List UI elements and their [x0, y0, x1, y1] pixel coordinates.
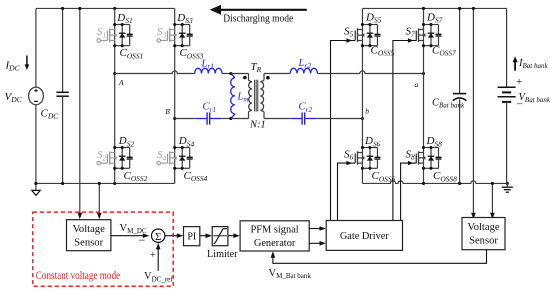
transistor S6 (MOSFET): [355, 148, 364, 169]
label V_DC_ref: [144, 271, 173, 283]
junction dots: [173, 146, 184, 170]
label T_R: [251, 61, 262, 74]
wire leg2 mid (node B): [174, 46, 176, 148]
diode D_S2: [119, 148, 126, 169]
wire (cell bottom bracket): [362, 167, 377, 169]
wire (cell top bracket): [362, 147, 377, 149]
wire V- sense line (left): [97, 183, 102, 219]
junction dots: [422, 23, 433, 47]
wire primary bottom lead: [231, 110, 252, 118]
svg-text:Voltage: Voltage: [73, 224, 105, 235]
label S6: [344, 148, 354, 161]
block Voltage Sensor (right): [462, 218, 505, 250]
capacitor C_OSS7: [436, 25, 442, 46]
wire V_DC_ref into summer: [156, 243, 161, 271]
label S2: [97, 149, 107, 162]
wire node B to C_r1: [175, 118, 196, 120]
label C_OSS4: [184, 170, 208, 183]
wire (cell bottom bracket): [424, 45, 439, 47]
wire (cell top bracket): [424, 24, 439, 26]
label C_OSS6: [372, 170, 396, 183]
block Gate Driver: [326, 221, 402, 251]
label C_OSS3: [180, 47, 204, 60]
wire V_DC branch upper: [35, 8, 37, 87]
junction dots: [113, 146, 124, 170]
label C_OSS8: [433, 170, 457, 183]
junction dot S8 leg bottom: [422, 182, 425, 185]
label C_OSS2: [124, 170, 148, 183]
svg-text:Generator: Generator: [254, 238, 296, 249]
label V_Bat bank: [519, 92, 550, 104]
label D_S2: [118, 135, 135, 148]
label S4: [157, 149, 167, 162]
node b: [361, 107, 369, 121]
capacitor C_OSS2: [127, 148, 133, 169]
label − (battery): [517, 98, 523, 110]
capacitor C_OSS5: [374, 25, 380, 46]
wire leg3 bottom: [361, 168, 363, 183]
label I_Bat bank: [518, 58, 548, 70]
transistor S3 (MOSFET): [157, 25, 177, 46]
wire top rail (right bridge): [362, 7, 506, 9]
diode D_S4: [179, 148, 186, 169]
label D_S7: [426, 12, 443, 25]
svg-text:Discharging mode: Discharging mode: [223, 13, 293, 25]
label V_M_Bat bank: [269, 268, 312, 280]
label C_r2: [299, 102, 313, 114]
wire (cell top bracket): [175, 24, 190, 26]
wire leg4 bottom: [423, 168, 425, 183]
wire (cell top bracket): [424, 147, 439, 149]
label Constant voltage mode: [36, 270, 120, 282]
wire PFM to gate driver (2): [309, 241, 326, 246]
junction dot S7 leg top: [422, 7, 425, 10]
label − (summer): [139, 233, 146, 247]
diode D_S3: [179, 25, 186, 46]
wire summer to PI: [165, 233, 183, 238]
svg-text:PI: PI: [187, 232, 196, 243]
wire leg1 top: [114, 8, 116, 24]
transistor S1 (MOSFET): [97, 25, 117, 46]
transistor S4 (MOSFET): [157, 148, 177, 169]
junction dots: [361, 146, 372, 170]
wire gate drive S7: [393, 38, 417, 220]
svg-text:Voltage: Voltage: [467, 222, 499, 233]
inductor L_r2: [290, 68, 317, 73]
svg-text:Gate Driver: Gate Driver: [340, 231, 389, 242]
wire leg4 mid (node a): [423, 46, 425, 148]
battery V_Bat bank: [498, 8, 516, 183]
wire secondary bottom lead: [260, 110, 290, 118]
wire PFM to gate driver (1): [309, 226, 326, 231]
wire (cell bottom bracket): [115, 45, 130, 47]
capacitor C_Bat bank: [453, 8, 467, 183]
label L_r1: [201, 58, 215, 70]
junction dots battery bus: [458, 7, 509, 185]
wire V_DC branch lower: [35, 105, 37, 184]
wire sensor to summer: [111, 233, 149, 238]
capacitor C_OSS3: [187, 25, 193, 46]
svg-text:a: a: [415, 80, 419, 89]
wire gate drive S5: [331, 38, 356, 220]
label D_S3: [176, 12, 193, 25]
label D_S4: [178, 135, 195, 148]
label D_S5: [365, 12, 382, 25]
label D_S6: [364, 135, 381, 148]
label S8: [406, 148, 416, 161]
wire (cell top bracket): [115, 147, 130, 149]
diode D_S8: [428, 148, 435, 169]
wire leg1 bottom: [114, 168, 116, 183]
block PFM signal Generator: [240, 221, 309, 251]
wire node A to L_r1 (hop over leg2): [115, 71, 195, 74]
label S3: [157, 26, 167, 39]
label C_OSS7: [432, 45, 456, 58]
source V_DC: [29, 87, 44, 105]
wire (cell bottom bracket): [424, 167, 439, 169]
svg-text:A: A: [118, 78, 124, 87]
svg-text:Σ: Σ: [155, 231, 161, 243]
svg-text:B: B: [165, 107, 170, 116]
wire V+ sense line (left): [78, 8, 83, 219]
svg-text:N:1: N:1: [249, 120, 266, 131]
svg-text:PFM signal: PFM signal: [250, 225, 298, 236]
wire L_r2 to node a (hop over S5 leg): [317, 71, 423, 74]
wire (cell top bracket): [175, 147, 190, 149]
wire leg3 mid (node b): [361, 46, 363, 148]
label C_DC: [41, 108, 60, 121]
wire bottom rail (left bridge): [36, 182, 175, 184]
transistor S5 (MOSFET): [355, 25, 364, 46]
transformer T_R secondary winding: [260, 82, 263, 110]
capacitor C_OSS1: [127, 25, 133, 46]
label S1: [97, 26, 106, 39]
ground (right): [502, 183, 513, 192]
label + (summer): [150, 250, 156, 261]
wire leg4 top: [423, 8, 425, 24]
diode D_S7: [428, 25, 435, 46]
label C_OSS1: [120, 47, 144, 60]
svg-text:+: +: [150, 250, 156, 261]
label N:1: [249, 120, 266, 131]
block Limiter: [212, 227, 228, 246]
label L_m: [237, 92, 249, 104]
transformer core: [255, 80, 258, 112]
wire secondary top lead: [260, 74, 290, 82]
label V_DC: [5, 91, 23, 104]
wire V+ sense line (right): [471, 8, 476, 219]
label V_M_DC: [120, 223, 147, 235]
wire primary top lead: [231, 74, 252, 82]
transformer T_R primary winding: [249, 82, 252, 110]
node a: [415, 72, 426, 89]
wire PI to limiter: [200, 233, 212, 238]
wire top rail (left bridge): [36, 7, 175, 9]
junction dots: [173, 23, 184, 47]
wire C_r1 to L_m node: [222, 118, 231, 120]
wire L_r1 to L_m node: [222, 73, 231, 75]
label D_S8: [426, 135, 443, 148]
junction dots: [422, 146, 433, 170]
svg-text:−: −: [517, 98, 523, 110]
current I_Bat bank arrow: [513, 56, 518, 70]
transistor S2 (MOSFET): [97, 148, 117, 169]
inductor L_m: [231, 74, 235, 119]
svg-text:Limiter: Limiter: [207, 249, 238, 260]
label C_Bat bank: [432, 98, 465, 110]
junction dots DC bus: [61, 7, 116, 185]
label + (battery): [516, 76, 522, 88]
label L_r2: [298, 58, 312, 70]
discharging mode arrow: [210, 5, 307, 15]
capacitor C_DC: [56, 8, 68, 183]
transistor S7 (MOSFET): [416, 25, 425, 46]
wire V- sense line (right): [490, 183, 495, 219]
node A: [113, 72, 124, 87]
wire (cell bottom bracket): [175, 167, 190, 169]
wire gate drive S8: [401, 161, 417, 221]
label S7: [406, 25, 416, 38]
ground (left, open triangle): [32, 182, 40, 196]
svg-text:Sensor: Sensor: [469, 235, 498, 246]
wire (cell bottom bracket): [362, 45, 377, 47]
junction dots L_m: [229, 72, 232, 120]
wire (cell top bracket): [115, 24, 130, 26]
wire leg1 mid (node A): [114, 46, 116, 148]
label C_OSS5: [371, 45, 395, 58]
capacitor C_OSS4: [187, 148, 193, 169]
label S5: [344, 25, 354, 38]
svg-text:b: b: [365, 107, 369, 116]
wire leg3 top: [361, 8, 363, 24]
label Discharging mode: [223, 13, 293, 25]
svg-text:+: +: [516, 76, 522, 88]
current I_DC arrow: [25, 56, 30, 71]
svg-text:Sensor: Sensor: [74, 237, 103, 248]
wire (cell bottom bracket): [115, 167, 130, 169]
wire V_M_Bat bank feedback: [271, 250, 487, 264]
transistor S8 (MOSFET): [416, 148, 425, 169]
diode D_S5: [367, 25, 374, 46]
wire (cell bottom bracket): [175, 45, 190, 47]
label C_r1: [203, 102, 217, 114]
label Limiter: [207, 249, 238, 260]
junction dots: [113, 23, 124, 47]
junction dots: [361, 23, 372, 47]
label D_S1: [116, 12, 132, 25]
wire leg2 bottom: [174, 168, 176, 183]
capacitor C_r2: [291, 112, 317, 124]
capacitor C_OSS6: [374, 148, 380, 169]
svg-text:−: −: [139, 233, 146, 247]
wire leg2 top: [174, 8, 176, 24]
wire limiter to PFM: [228, 233, 240, 238]
diode D_S1: [119, 25, 126, 46]
node B: [165, 107, 176, 120]
block Voltage Sensor (left): [67, 220, 111, 251]
wire C_r2 to node b: [317, 118, 363, 120]
wire bottom rail (right bridge): [362, 181, 507, 184]
summer Σ: [152, 229, 165, 243]
label I_DC: [5, 60, 21, 73]
capacitor C_r1: [195, 112, 222, 124]
block PI: [184, 227, 200, 246]
capacitor C_OSS8: [436, 148, 442, 169]
inductor L_r1: [195, 68, 222, 73]
polarity dots: [243, 76, 270, 80]
svg-text:Constant voltage mode: Constant voltage mode: [36, 270, 120, 282]
wire gate drive S6: [338, 161, 356, 221]
wire (cell top bracket): [362, 24, 377, 26]
red dashed box (constant voltage mode): [33, 212, 173, 286]
diode D_S6: [367, 148, 374, 169]
